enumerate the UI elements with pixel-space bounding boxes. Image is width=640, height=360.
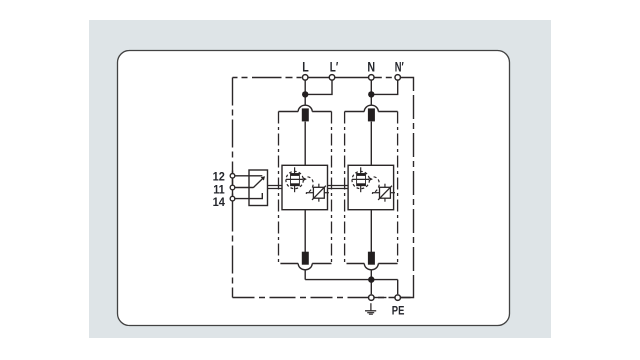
actuation arrowhead (module 2) — [369, 177, 373, 181]
enclosure boundary bottom solid part between ground and PE — [374, 297, 386, 299]
varistor RV1 box — [313, 187, 324, 198]
module 2 top rail left — [345, 111, 365, 113]
wire N' to top-right corner and down — [398, 78, 414, 92]
module 1 bottom rail right — [312, 263, 331, 265]
thermal element top bar (module 1) — [291, 173, 300, 176]
thermal disconnector F3 contact bar — [368, 108, 375, 121]
thermal element vertical lead (module 2) — [360, 167, 362, 192]
enclosure boundary top segment between N and N' — [371, 77, 397, 79]
wire N down to junction — [370, 78, 372, 98]
enclosure boundary top-left segment — [233, 77, 302, 79]
module 1 dashed side left — [278, 112, 280, 264]
wire F2 to PE bus — [304, 270, 306, 280]
dashed actuation curve (module 1) — [306, 177, 313, 194]
module 2 dashed side right — [397, 112, 399, 264]
junction dot L — [302, 91, 308, 97]
wire bus corner down to PE terminal — [397, 280, 399, 295]
ground symbol bar 2 — [367, 312, 374, 314]
varistor RV1 bottom stub — [318, 198, 320, 202]
wire bottom-right corner to PE — [401, 280, 414, 298]
thermal element bottom bar (module 1) — [291, 183, 300, 186]
thermal disconnector F1 contact bar — [302, 108, 309, 121]
thermal disconnector F4 arc — [364, 264, 378, 270]
varistor RV2 top stub — [384, 184, 386, 188]
thermal disconnector F4 contact bar — [368, 252, 375, 265]
mechanical linkage module 1 to module 2 — [328, 186, 349, 189]
terminal PE — [395, 295, 401, 301]
terminal N — [369, 75, 375, 81]
svg-text:N′: N′ — [395, 59, 404, 74]
thermal disconnector F1 arc — [298, 105, 312, 111]
varistor RV1 diagonal — [312, 186, 326, 200]
wire junction to disconnector F3 — [370, 94, 372, 105]
switch S1 wire contact 11 — [235, 187, 254, 189]
varistor RV2 left stub — [372, 192, 380, 194]
module 2 top rail right — [378, 111, 397, 113]
enclosure boundary right edge dashed part — [413, 91, 415, 280]
wire F4 to PE bus — [370, 270, 372, 280]
module 1 box — [282, 165, 328, 209]
module 2 bottom rail left — [347, 263, 365, 265]
thermal disconnector F2 arc — [298, 264, 312, 270]
protection module 1 (L path) — [279, 94, 332, 280]
thermal element body (module 1) — [291, 174, 300, 186]
junction dot N — [368, 91, 374, 97]
ground symbol bar 1 — [365, 310, 376, 312]
module 1 bottom rail left — [280, 263, 298, 265]
thermal element vertical lead (module 1) — [294, 167, 296, 192]
svg-text:N: N — [367, 59, 375, 74]
mechanical linkage switch to module 1 — [268, 186, 283, 189]
terminal 14 — [230, 196, 235, 201]
switch S1 box — [249, 170, 268, 206]
thermal element body (module 2) — [357, 174, 366, 186]
wire module box to disconnector F4 — [370, 210, 372, 252]
ground symbol stem — [370, 303, 372, 310]
terminal 12 — [230, 174, 235, 179]
protection module 2 (N path) — [345, 94, 398, 280]
svg-text:14: 14 — [213, 195, 225, 209]
enclosure boundary left edge solid part at terminals — [232, 171, 234, 204]
PE bus wire — [305, 279, 398, 281]
svg-text:PE: PE — [392, 303, 405, 317]
terminal 11 — [230, 185, 235, 190]
switch S1 moving contact arrow tick — [261, 176, 265, 180]
thermal element horizontal lead (module 1) — [286, 178, 303, 180]
varistor RV2 box — [380, 187, 391, 198]
varistor RV1 left stub — [306, 192, 314, 194]
module 2 dashed side left — [344, 112, 346, 264]
dashed actuation curve (module 2) — [372, 177, 379, 194]
wire bus to ground terminal — [370, 280, 372, 295]
thermal disconnector F2 contact bar — [302, 252, 309, 265]
white rounded card — [118, 51, 510, 326]
switch S1 wire contact 14 — [235, 193, 263, 199]
wire F1 to module box — [304, 122, 306, 166]
ground symbol bar 3 — [369, 313, 373, 315]
thermal element bottom bar (module 2) — [357, 183, 366, 186]
thermal element top bar (module 2) — [357, 173, 366, 176]
ground terminal — [369, 295, 375, 301]
thermal element horizontal lead (module 2) — [352, 178, 369, 180]
varistor RV2 bottom stub — [384, 198, 386, 202]
svg-text:L: L — [302, 59, 309, 74]
varistor RV2 diagonal — [378, 186, 392, 200]
wire L' branch down and across — [305, 78, 332, 95]
varistor RV2 right stub — [390, 192, 395, 194]
terminal L' — [329, 75, 335, 81]
module 2 box — [348, 165, 394, 209]
wire N' branch down and across — [371, 78, 397, 95]
wire F3 to module box — [370, 122, 372, 166]
wire L down to junction — [304, 78, 306, 98]
module 2 bottom rail right — [378, 263, 397, 265]
terminal N' — [395, 75, 401, 81]
varistor RV1 right stub — [324, 192, 329, 194]
junction dot PE bus — [368, 276, 374, 282]
module 1 top rail left — [279, 111, 299, 113]
module 1 dashed side right — [331, 112, 333, 264]
wire L to N along top — [305, 77, 371, 79]
wire module box to disconnector F2 — [304, 210, 306, 252]
svg-text:12: 12 — [213, 169, 225, 183]
varistor RV1 top stub — [318, 184, 320, 188]
svg-text:L′: L′ — [330, 59, 339, 74]
thermal monitor circle (module 2) — [352, 171, 369, 188]
terminal L — [302, 75, 308, 81]
module 1 top rail right — [312, 111, 331, 113]
thermal disconnector F3 arc — [364, 105, 378, 111]
thermal monitor circle (module 1) — [286, 171, 303, 188]
grey backdrop panel — [89, 20, 551, 338]
actuation arrowhead (module 1) — [303, 177, 307, 181]
enclosure boundary left edge — [232, 78, 234, 298]
switch S1 moving contact — [253, 177, 264, 188]
enclosure boundary bottom edge — [233, 297, 414, 299]
remote signalling switch S1 wires: contact 12 — [235, 175, 263, 177]
wire junction to disconnector F1 — [304, 94, 306, 105]
